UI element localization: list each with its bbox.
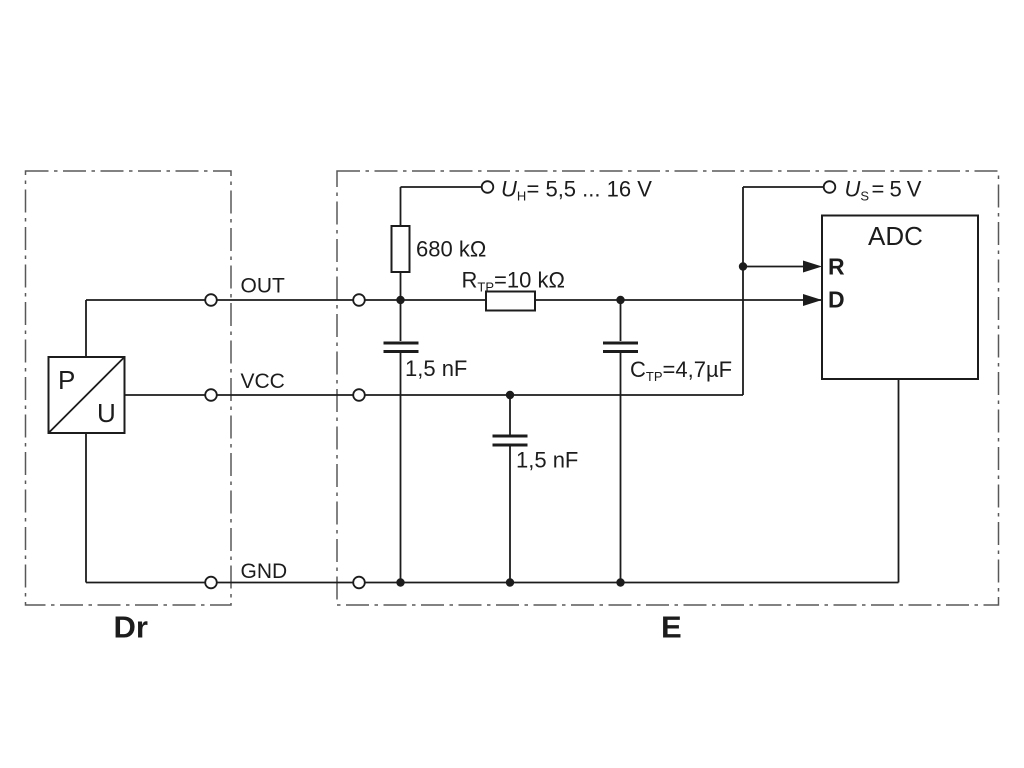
svg-text:RTP=10 kΩ: RTP=10 kΩ [462, 268, 565, 295]
svg-text:U: U [97, 398, 116, 428]
arrowhead R input [803, 261, 822, 273]
frame E (dash-dot box) [337, 171, 999, 605]
wire UH to resistor and down to OUT [400, 187, 402, 300]
wire UH feed horizontal [401, 186, 482, 188]
junction node OUT-CTP [616, 296, 624, 304]
junction node GND-C2 [506, 578, 514, 586]
wire capacitor CTP upper [620, 300, 622, 341]
svg-text:D: D [828, 287, 845, 313]
wire US vertical to VCC [742, 187, 744, 395]
svg-text:E: E [661, 610, 682, 645]
junction node GND-CTP [616, 578, 624, 586]
svg-text:1,5 nF: 1,5 nF [405, 356, 467, 381]
capacitor C1 plates [384, 343, 419, 352]
svg-text:680 kΩ: 680 kΩ [416, 237, 486, 262]
wire US feed horizontal [743, 186, 824, 188]
svg-text:Dr: Dr [114, 610, 148, 645]
junction node GND-C1 [396, 578, 404, 586]
wire GND horizontal [86, 582, 899, 584]
svg-text:GND: GND [241, 560, 288, 583]
wire VCC horizontal [124, 394, 743, 396]
wire R arrow to ADC [743, 266, 806, 268]
svg-text:OUT: OUT [241, 275, 286, 298]
terminal VCC E [353, 389, 365, 401]
wire capacitor C1 upper [400, 300, 402, 341]
resistor RTP [486, 292, 535, 311]
wire capacitor C2 lower [509, 447, 511, 583]
svg-text:VCC: VCC [241, 370, 285, 393]
terminal VCC Dr [205, 389, 217, 401]
wire capacitor CTP lower [620, 353, 622, 583]
capacitor CTP plates [603, 343, 638, 352]
arrowhead D input [803, 294, 822, 306]
wire sensor bottom to GND [85, 433, 87, 583]
capacitor C2 plates [493, 436, 528, 445]
terminal US [824, 181, 836, 193]
wire sensor top to OUT [85, 300, 87, 357]
svg-text:R: R [828, 254, 845, 280]
ADC box U1 [822, 216, 978, 380]
sensor box P/U [49, 357, 125, 433]
wire capacitor C2 upper [509, 395, 511, 435]
resistor 680 kOhm [392, 226, 410, 272]
wire ADC bottom to GND [898, 379, 900, 583]
wire OUT horizontal [86, 299, 822, 301]
svg-text:CTP=4,7µF: CTP=4,7µF [630, 357, 732, 384]
terminal OUT E [353, 294, 365, 306]
svg-text:ADC: ADC [868, 221, 923, 251]
junction node VCC-C2 [506, 391, 514, 399]
terminal OUT Dr [205, 294, 217, 306]
svg-text:US= 5 V: US= 5 V [845, 177, 922, 204]
terminal GND E [353, 577, 365, 589]
terminal UH [482, 181, 494, 193]
wire capacitor C1 lower [400, 353, 402, 583]
frame Dr (dash-dot box) [26, 171, 232, 605]
svg-text:1,5 nF: 1,5 nF [516, 448, 578, 473]
terminal GND Dr [205, 577, 217, 589]
junction node R-arrow [739, 262, 747, 270]
junction node OUT-R680 [396, 296, 404, 304]
svg-text:P: P [58, 365, 75, 395]
